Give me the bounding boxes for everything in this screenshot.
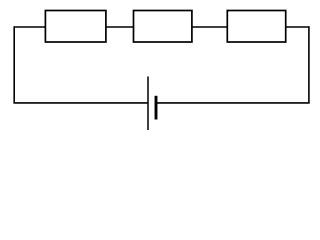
wire: top-right lead from R3 to loop corner bbox=[286, 26, 309, 28]
wire: bottom-right run from battery negative plate bbox=[156, 102, 310, 104]
resistor R1 bbox=[45, 11, 106, 43]
resistor R2 bbox=[134, 11, 192, 43]
wire: top-left lead from loop corner to R1 bbox=[14, 26, 45, 28]
wire: right vertical side of loop bbox=[308, 26, 310, 103]
wire: between R1 and R2 bbox=[106, 26, 134, 28]
battery B1 positive plate (long thin) bbox=[147, 76, 149, 130]
resistor R3 bbox=[227, 11, 285, 43]
wire: between R2 and R3 bbox=[192, 26, 227, 28]
battery B1 negative plate (short thick) bbox=[155, 96, 158, 120]
wire: left vertical side of loop bbox=[13, 26, 15, 103]
wire: bottom-left run to battery positive plate bbox=[13, 102, 148, 104]
